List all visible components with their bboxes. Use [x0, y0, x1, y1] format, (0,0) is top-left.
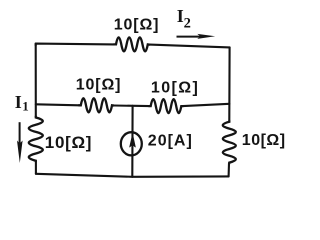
current arrow I1	[19, 122, 21, 146]
svg-text:10[Ω]: 10[Ω]	[45, 133, 92, 152]
wire: middle rail left segment	[36, 104, 79, 105]
svg-text:10[Ω]: 10[Ω]	[76, 76, 122, 93]
resistor R5 (right, 10 ohm) vertical	[223, 121, 236, 163]
wire: center branch (node C down to bottom rail)	[131, 106, 133, 177]
wire: left side lower	[35, 162, 37, 174]
current source U1 arrow (points up)	[130, 134, 136, 147]
svg-text:10[Ω]: 10[Ω]	[242, 132, 286, 149]
wire: right side lower	[228, 163, 230, 176]
svg-text:1: 1	[22, 98, 29, 113]
svg-text:20[A]: 20[A]	[148, 133, 193, 150]
wire: bottom rail	[36, 174, 229, 177]
wire: left side upper (node A to node B)	[35, 44, 37, 117]
svg-text:I: I	[15, 92, 22, 112]
wire: top side left segment	[36, 44, 114, 46]
current source U1 circle (20 A)	[121, 132, 142, 155]
svg-text:10[Ω]: 10[Ω]	[151, 79, 199, 96]
resistor R1 (top, 10 ohm)	[114, 37, 150, 51]
wire: right side upper	[228, 47, 230, 121]
svg-text:2: 2	[184, 15, 191, 31]
resistor R2 (middle left, 10 ohm)	[79, 98, 114, 112]
svg-text:10[Ω]: 10[Ω]	[114, 17, 160, 34]
wire: middle rail center segment	[114, 104, 149, 107]
wire: top side right segment	[150, 45, 230, 48]
current arrow I2	[177, 36, 202, 38]
resistor R3 (middle right, 10 ohm)	[149, 99, 183, 113]
wire: middle rail right segment	[183, 104, 229, 106]
resistor R4 (left, 10 ohm) vertical	[29, 117, 43, 162]
